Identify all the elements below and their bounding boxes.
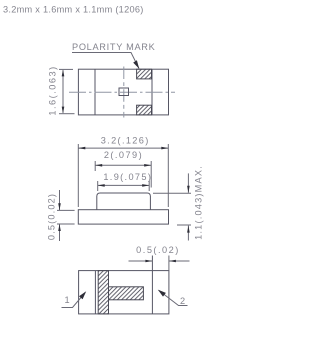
cathode hatch strip [98, 271, 108, 314]
bottom view right edge extension [168, 256, 170, 271]
top view vertical centerline [123, 67, 125, 118]
svg-text:3.2mm x 1.6mm x 1.1mm (1206): 3.2mm x 1.6mm x 1.1mm (1206) [3, 5, 144, 15]
side view base plate [78, 210, 168, 224]
polarity mark hatch bottom [137, 105, 152, 115]
top view right terminal line [151, 69, 153, 115]
top view left terminal line [94, 69, 96, 115]
svg-text:3.2(.126): 3.2(.126) [101, 136, 150, 146]
pin 2 label [158, 290, 188, 306]
bottom view left terminal line [94, 271, 96, 314]
top view center chip square [119, 88, 129, 96]
svg-text:0.5(0.02): 0.5(0.02) [47, 193, 57, 240]
dimension 1.9(.075) [98, 172, 153, 191]
title text [3, 5, 144, 15]
dimension 1.1(.043)MAX [153, 165, 204, 240]
bottom view right terminal line [151, 256, 153, 314]
dimension 3.2(.126) [78, 136, 168, 207]
polarity mark hatch top [137, 69, 152, 79]
svg-text:1.9(.075): 1.9(.075) [103, 172, 152, 182]
top view horizontal centerline [69, 91, 175, 93]
svg-text:1.1(.043)MAX.: 1.1(.043)MAX. [194, 165, 204, 240]
svg-text:POLARITY MARK: POLARITY MARK [72, 42, 156, 52]
polarity mark label [72, 42, 156, 69]
side view lens dome [97, 193, 151, 210]
svg-text:0.5(.02): 0.5(.02) [136, 245, 180, 255]
dimension 2(.079) [95, 150, 151, 187]
svg-text:1: 1 [65, 295, 70, 305]
dimension 0.5(0.02) [47, 190, 75, 241]
dimension 1.6(.063) [48, 65, 75, 115]
bottom view outline [79, 271, 169, 314]
svg-text:1.6(.063): 1.6(.063) [48, 65, 58, 115]
dimension 0.5(.02) [129, 245, 190, 262]
pin 1 label [62, 291, 87, 307]
cathode hatch bar [109, 287, 144, 300]
svg-text:2(.079): 2(.079) [104, 150, 143, 160]
svg-text:2: 2 [180, 296, 185, 306]
top view outline [78, 69, 168, 115]
